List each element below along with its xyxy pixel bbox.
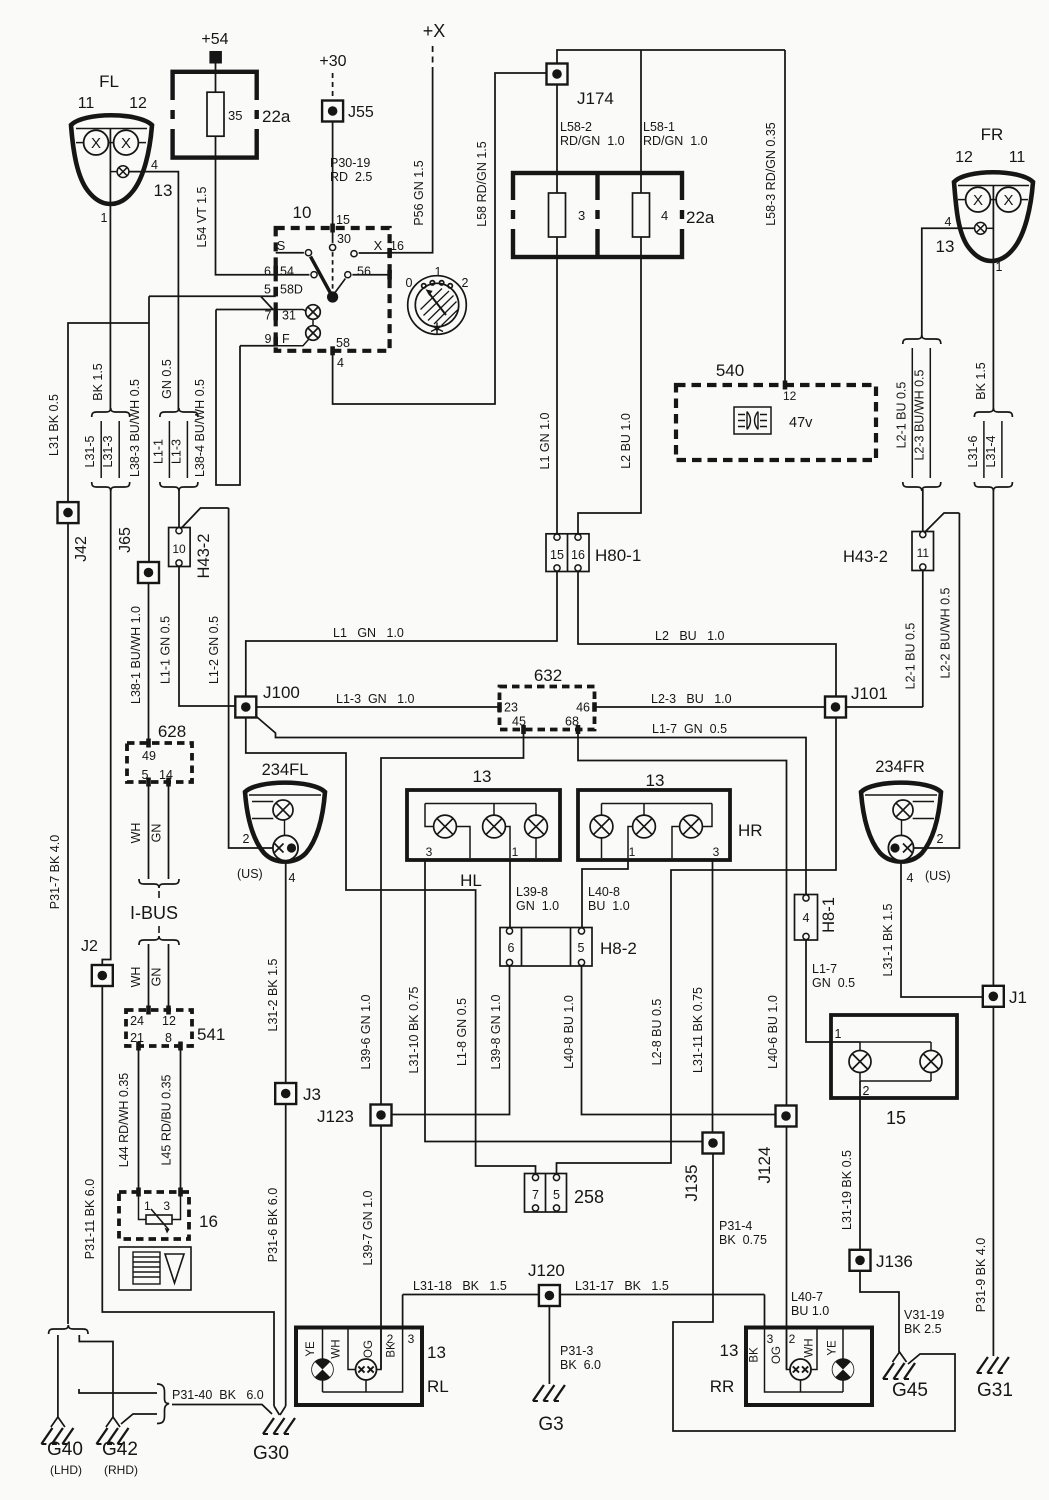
svg-text:4: 4 [907,871,914,885]
svg-text:P31-9 BK 4.0: P31-9 BK 4.0 [974,1238,988,1312]
wire S row [276,252,304,254]
rotary switch defroster glyph [431,323,443,335]
HL lamp 1 [434,815,457,838]
svg-text:P31-6 BK 6.0: P31-6 BK 6.0 [266,1188,280,1262]
connector H43-2 left [169,528,191,567]
RL xx lamp bottom stub [365,1380,367,1392]
svg-text:L2 BU 1.0: L2 BU 1.0 [619,413,633,469]
switch lever arm [311,257,332,296]
svg-text:X: X [973,192,983,209]
wire 628 pin5 WH [148,782,150,879]
svg-text:(US): (US) [237,867,263,881]
junction J55 [322,101,343,122]
svg-text:L2-3 BU/WH 0.5: L2-3 BU/WH 0.5 [912,369,926,460]
svg-text:24: 24 [130,1014,144,1028]
wire L1-1 to J100 [179,567,235,707]
svg-text:GN: GN [150,968,164,987]
switch contact circle 56 [345,272,351,278]
wire 58D branch diagonal [261,296,273,309]
wire J100 down branch L1-8 [246,718,536,1174]
svg-text:L31 BK 0.5: L31 BK 0.5 [47,394,61,456]
svg-text:(LHD): (LHD) [50,1463,82,1477]
wire J2 to G30 [102,986,274,1406]
svg-text:RL: RL [427,1377,449,1396]
svg-text:12: 12 [783,389,797,403]
234FL turn lamp [273,800,293,820]
svg-text:21: 21 [130,1031,144,1045]
brace P31-40 [157,1384,169,1424]
svg-text:22a: 22a [686,208,715,227]
svg-text:22a: 22a [262,107,291,126]
svg-text:1: 1 [629,845,636,859]
HR internal bus [602,803,713,805]
svg-text:L2 BU 1.0: L2 BU 1.0 [655,629,725,643]
HR lamp 3 [680,815,703,838]
svg-text:J136: J136 [876,1252,913,1271]
svg-text:L31-6: L31-6 [966,435,980,467]
FR center wire [992,186,994,261]
svg-text:L2-2 BU/WH 0.5: L2-2 BU/WH 0.5 [939,587,953,678]
wire J136 to G45 [860,1271,899,1352]
wire 234FL pin4 to J3 [285,861,287,1083]
wire L58-3 to lamp unit 540 [784,50,786,385]
svg-text:4: 4 [337,356,344,370]
wire HR pin1 to H8-2 pin 5 [582,860,628,928]
rheostat wiring [139,1192,147,1220]
svg-text:L2-8 BU 0.5: L2-8 BU 0.5 [650,999,664,1066]
wire L54 fuse to switch pin 54 [216,136,277,275]
svg-text:628: 628 [158,722,186,741]
svg-text:3: 3 [767,1332,774,1346]
svg-text:45: 45 [512,715,526,729]
junction J124 [776,1106,797,1127]
svg-text:35: 35 [228,108,242,123]
RL BK pin3 wire and bus [323,1328,403,1393]
wire label group L2-1 / L2-3 [894,335,941,491]
svg-text:G40: G40 [47,1439,83,1460]
wire J42 down to G40/G42 [67,523,69,1324]
svg-text:H80-1: H80-1 [595,546,641,565]
connector H8-1 [795,895,818,941]
switch lamp at F [306,326,321,341]
svg-text:HR: HR [738,821,763,840]
switch internal lamp stubs [312,319,314,325]
svg-text:541: 541 [197,1025,225,1044]
switch contact circle X [351,251,357,257]
ground G31 [977,1357,1009,1373]
junction J120 [539,1285,560,1306]
svg-text:L58 RD/GN 1.5: L58 RD/GN 1.5 [475,141,489,227]
wire L31-17 into RR pin3 [764,1295,766,1328]
svg-text:11: 11 [1009,149,1026,166]
svg-text:P31-11 BK 6.0: P31-11 BK 6.0 [83,1179,97,1259]
svg-text:16: 16 [390,239,404,253]
wire P31-40 to G30 [172,1405,272,1415]
ground G3 [533,1385,565,1401]
wire L1-2 GN down to 234FL [229,508,273,848]
switch lamp at 31 [306,305,321,320]
unit 15 bottom bus [859,1073,861,1082]
wire branch to J42 [68,323,149,502]
HR lamp 2 [633,815,656,838]
svg-text:H8-1: H8-1 [820,897,838,933]
svg-text:L1 GN 1.0: L1 GN 1.0 [538,412,552,469]
svg-text:3: 3 [426,845,433,859]
wire L2-2 branch diagonal [924,513,959,533]
svg-text:L1 GN 1.0: L1 GN 1.0 [333,626,404,640]
ground G30 funnel [274,1406,280,1415]
svg-text:L31-1 BK 1.5: L31-1 BK 1.5 [881,903,895,976]
svg-text:WH: WH [129,823,143,844]
svg-text:3: 3 [163,1199,170,1213]
svg-text:P31-4: P31-4 [719,1219,752,1233]
HL lamp 3 [525,815,548,838]
wire L1 H80-1 to J100 [246,572,557,697]
lamp cluster RR box [746,1328,872,1406]
svg-text:OG: OG [363,1340,375,1358]
svg-text:258: 258 [574,1187,604,1207]
svg-text:L39-7 GN 1.0: L39-7 GN 1.0 [361,1190,375,1265]
junction J135 [703,1133,724,1154]
svg-text:OG: OG [771,1346,783,1364]
svg-text:58: 58 [336,336,350,350]
FL center wire [109,129,111,204]
234FR housing chord [865,794,937,796]
svg-text:L31-11 BK 0.75: L31-11 BK 0.75 [691,987,705,1073]
svg-text:L1-1 GN 0.5: L1-1 GN 0.5 [159,616,173,684]
svg-text:L40-8 BU 1.0: L40-8 BU 1.0 [562,995,576,1069]
svg-text:J135: J135 [682,1165,701,1202]
svg-text:FR: FR [981,125,1004,144]
wire L44 to rheostat 16 [138,1046,140,1192]
FR park lamp [975,222,987,234]
svg-text:+54: +54 [201,31,228,48]
wire L2-3 632 to J101 [595,706,825,708]
wire L45 to rheostat 16 [180,1046,182,1192]
svg-text:L1-3: L1-3 [169,439,183,464]
svg-text:234FR: 234FR [875,758,925,776]
svg-text:RD/GN 1.0: RD/GN 1.0 [643,134,708,148]
+54 terminal square [209,51,222,64]
svg-text:5: 5 [553,1188,560,1202]
svg-text:L1-2 GN 0.5: L1-2 GN 0.5 [207,616,221,684]
svg-text:S: S [277,238,286,253]
svg-text:L38-4 BU/WH 0.5: L38-4 BU/WH 0.5 [193,379,207,477]
fog lamp icon frame [734,407,771,434]
234FL internal link [284,820,286,835]
auxiliary lamp unit 540 box [676,385,876,460]
svg-text:H8-2: H8-2 [600,939,637,958]
svg-text:5: 5 [142,768,149,782]
wire HL pin1 to H8-2 pin 6 [509,860,511,928]
HL lamp1 stub to dead pin [456,827,470,859]
wire FR pin1 down [992,260,994,410]
svg-text:2: 2 [789,1332,796,1346]
svg-text:L40-8: L40-8 [588,885,620,899]
wire J65 to 628 pin 49 [148,584,150,744]
svg-text:GN 0.5: GN 0.5 [160,359,174,399]
I-BUS dashes [158,891,160,898]
svg-text:58D: 58D [280,283,303,297]
svg-text:1: 1 [101,211,108,225]
junction J65 [138,562,159,583]
unit 15 lamp right [920,1051,942,1073]
headlamp FL housing [71,115,152,204]
svg-text:49: 49 [142,749,156,763]
svg-text:L31-5: L31-5 [83,435,97,467]
svg-text:BK 0.75: BK 0.75 [719,1233,767,1247]
svg-text:RD 2.5: RD 2.5 [330,170,372,184]
svg-text:+30: +30 [319,53,346,70]
wire H8-1 to lamp unit 15 [806,940,860,1042]
wire to 541 WH [148,944,150,1010]
svg-text:J3: J3 [303,1085,321,1104]
wire J100 branch L1-7 diagonal [256,717,806,895]
svg-text:FL: FL [99,72,119,91]
svg-text:J120: J120 [528,1261,565,1280]
svg-text:X: X [1003,192,1013,209]
connector 258 [525,1174,567,1213]
svg-text:P56 GN 1.5: P56 GN 1.5 [412,160,426,225]
svg-text:47v: 47v [789,415,813,431]
wire label group L31-5 / L31-3 [83,408,130,491]
junction J123 [371,1105,392,1126]
svg-text:L31-4: L31-4 [984,435,998,467]
svg-text:56: 56 [357,265,371,279]
instrument unit 541 box [126,1010,192,1046]
svg-text:BK: BK [749,1347,761,1363]
svg-text:+X: +X [423,21,446,41]
svg-text:2: 2 [462,276,469,290]
svg-text:P30-19: P30-19 [330,156,370,170]
switch pivot dot [327,291,338,302]
svg-text:1: 1 [835,1027,842,1041]
234FR park/turn lamp [888,835,913,860]
svg-text:YE: YE [305,1341,317,1357]
wire split brace G40/G42 [49,1325,88,1334]
svg-text:L58-2: L58-2 [560,120,592,134]
HR bus drops [601,804,603,816]
svg-text:GN: GN [150,824,164,843]
svg-text:L44 RD/WH 0.35: L44 RD/WH 0.35 [117,1073,131,1168]
lamp cluster RL box [296,1328,422,1406]
wire J124 to RR pin 2 [786,1127,788,1370]
svg-text:13: 13 [720,1341,739,1360]
svg-text:RD/GN 1.0: RD/GN 1.0 [560,134,625,148]
wire P31-40 upper branch [79,1389,157,1393]
RL YE lamp stubs [322,1328,324,1360]
svg-text:1: 1 [144,1199,151,1213]
svg-text:13: 13 [473,767,492,786]
HL bus drops [425,804,434,827]
dimmer icon triangle [165,1254,184,1283]
wire J101 east to H43-2 right [846,706,923,708]
relay box 22a left [173,72,257,158]
junction J100 [235,697,256,718]
svg-text:GN 1.0: GN 1.0 [516,899,559,913]
wire to 541 GN [168,944,170,1010]
svg-text:12: 12 [162,1014,176,1028]
RR turn indicator lamp YE [833,1359,854,1380]
lamp cluster HL box [407,790,560,860]
dimmer icon hatched panel [133,1252,160,1284]
unit 15 internal top bus [860,1041,931,1043]
ground G42 [97,1417,129,1444]
wire fuse3 to H80-1 pin15 [556,237,558,534]
auxiliary lamp unit 15 box [831,1015,957,1098]
svg-text:J42: J42 [73,536,90,562]
svg-text:15: 15 [336,213,350,227]
svg-text:15: 15 [550,548,564,562]
wire J135 to G45 loop [673,1154,955,1432]
FR housing chord [958,185,1029,187]
wire J174 top bus [557,50,785,85]
svg-text:8: 8 [165,1031,172,1045]
svg-text:J1: J1 [1009,988,1027,1007]
svg-text:L58-1: L58-1 [643,120,675,134]
RL turn indicator lamp YE [312,1359,333,1380]
svg-text:3: 3 [713,845,720,859]
svg-text:L40-6 BU 1.0: L40-6 BU 1.0 [766,995,780,1069]
wire +54 to fuse 35 [215,64,217,93]
wire FL pin1 down [109,203,111,410]
fuse 35 [207,92,224,136]
svg-text:L1-8 GN 0.5: L1-8 GN 0.5 [455,998,469,1066]
dashed wire +30 to J55 [332,73,334,99]
FR high-beam lamp 12 [966,187,991,212]
svg-text:J123: J123 [317,1107,354,1126]
wire FR pin4 west [922,228,975,337]
svg-text:J2: J2 [81,938,98,955]
FL high-beam lamp 11 [84,130,109,155]
svg-text:3: 3 [578,208,585,223]
svg-text:L31-19 BK 0.5: L31-19 BK 0.5 [840,1150,854,1230]
svg-text:RR: RR [710,1377,735,1396]
svg-text:234FL: 234FL [262,761,309,779]
svg-text:BU 1.0: BU 1.0 [791,1304,829,1318]
switch contact circle S [305,250,311,256]
dashed wire +X [432,46,434,70]
234FR turn lamp [893,800,913,820]
I-BUS brace upper [139,879,179,888]
svg-text:J100: J100 [263,683,300,702]
svg-text:G30: G30 [253,1443,289,1464]
svg-text:V31-19: V31-19 [904,1308,944,1322]
svg-text:L31-3: L31-3 [101,435,115,467]
svg-text:J55: J55 [348,104,374,121]
svg-text:9: 9 [265,332,272,346]
svg-text:BK 1.5: BK 1.5 [974,362,988,400]
wire HL pin3 to J135 [425,860,703,1142]
wire L58 switch to J174 [333,73,546,404]
wire L31-18 into RL pin3 [402,1295,404,1328]
wire to G42 [79,1335,113,1417]
connector H8-2 [500,928,592,967]
junction J174 [547,64,568,85]
svg-text:13: 13 [936,237,955,256]
control unit 628 box [127,743,192,782]
svg-text:16: 16 [199,1212,218,1231]
svg-text:L40-7: L40-7 [791,1290,823,1304]
connector H43-2 right [912,532,934,571]
svg-text:L31-17 BK 1.5: L31-17 BK 1.5 [575,1279,669,1293]
wire J174 to fuse 3 [556,85,558,193]
wire label group L1-1 / L1-3 [151,408,198,491]
HL lamp 2 [483,815,506,838]
wire H8-2 pin6 to J123 [392,966,510,1115]
lamp 234FR housing [861,783,941,862]
junction J3 [275,1083,296,1104]
svg-text:14: 14 [159,768,173,782]
svg-text:(RHD): (RHD) [104,1463,138,1477]
svg-text:BK 6.0: BK 6.0 [560,1358,601,1372]
svg-text:L54 VT 1.5: L54 VT 1.5 [195,186,209,247]
wire 234FR pin4 to J1 [901,861,983,997]
switch pin ticks [273,266,278,276]
svg-text:540: 540 [716,361,744,380]
svg-text:46: 46 [576,701,590,715]
svg-text:G42: G42 [102,1439,138,1460]
wire +X to switch contact X [390,70,433,253]
svg-text:J124: J124 [755,1147,774,1184]
wire L31-18 row [403,1294,539,1296]
svg-text:1: 1 [435,265,442,279]
fuse box 22a center [513,173,682,257]
RR YE lamp stubs [842,1328,844,1360]
wire 54 row [276,274,309,276]
svg-text:11: 11 [917,546,930,560]
svg-text:68: 68 [565,715,579,729]
RR park lamp xx [790,1359,811,1380]
wire J101 down branch L2-8 [557,718,837,1174]
svg-text:X: X [91,135,101,152]
unit 15 lamp left [849,1051,871,1073]
svg-text:L31-2 BK 1.5: L31-2 BK 1.5 [266,958,280,1031]
lamp 234FL housing [245,783,325,862]
svg-text:(US): (US) [925,869,951,883]
svg-text:2: 2 [243,832,250,846]
svg-text:4: 4 [803,911,810,925]
wire L1-3 J100 to 632 [256,706,499,708]
svg-text:10: 10 [172,542,186,556]
svg-text:YE: YE [827,1340,839,1356]
svg-text:L45 RD/BU 0.35: L45 RD/BU 0.35 [160,1074,174,1165]
svg-text:1: 1 [996,260,1003,274]
svg-text:G31: G31 [977,1380,1013,1401]
svg-text:5: 5 [578,941,585,955]
wire fuse4 to H80-1 pin16 [578,237,641,534]
svg-text:I-BUS: I-BUS [130,903,178,923]
svg-text:X: X [374,238,383,253]
svg-text:H43-2: H43-2 [843,548,888,566]
svg-text:F: F [282,332,290,346]
wire H8-2 pin5 to J124 [582,966,776,1115]
svg-text:BK 2.5: BK 2.5 [904,1322,942,1336]
svg-text:J65: J65 [117,527,134,553]
svg-text:7: 7 [265,309,272,323]
wire J1 to G31 [992,1007,994,1356]
svg-text:31: 31 [282,309,296,323]
234FR internal link [901,820,903,835]
svg-text:16: 16 [571,548,585,562]
light switch unit 10 box [276,228,390,351]
headlamp FR housing [954,172,1033,261]
wire 58D row [149,295,276,297]
FL high-beam lamp 12 [114,130,139,155]
wire L2 H80-1 to J101 [578,572,836,697]
svg-text:12: 12 [129,95,147,112]
svg-text:J101: J101 [851,684,888,703]
